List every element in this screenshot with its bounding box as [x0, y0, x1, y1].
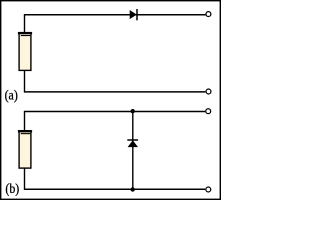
diode D1 series (circuit a), anode left, cathode bar right	[130, 9, 137, 20]
wire: circuit (b) top rail from battery to output terminal	[25, 111, 206, 113]
junction: circuit (b) top rail to shunt branch	[131, 109, 135, 113]
diode D2 shunt (circuit b), cathode bar up, anode down	[127, 140, 138, 147]
wire: circuit (b) bottom rail	[25, 188, 206, 190]
battery B2 (circuit b)	[18, 130, 32, 168]
wire: circuit (a) left vertical from top rail down to battery positive	[24, 14, 26, 33]
svg-text:(a): (a)	[5, 88, 18, 103]
wire: circuit (a) bottom rail	[25, 91, 206, 93]
wire: circuit (b) left vertical from top rail down to battery positive	[24, 111, 26, 131]
terminal: circuit (a) bottom output (open circle)	[206, 89, 211, 94]
junction: circuit (b) bottom rail to shunt branch	[131, 187, 135, 191]
wire: circuit (a) left vertical from battery negative down to bottom rail	[24, 70, 26, 92]
terminal: circuit (b) bottom output (open circle)	[206, 187, 211, 192]
terminal: circuit (a) top output (open circle)	[206, 12, 211, 17]
terminal: circuit (b) top output (open circle)	[206, 109, 211, 114]
wire: circuit (b) left vertical from battery negative down to bottom rail	[24, 168, 26, 190]
battery B1 (circuit a)	[18, 32, 32, 70]
wire: circuit (b) shunt branch vertical	[132, 112, 134, 190]
svg-text:(b): (b)	[5, 182, 19, 197]
wire: circuit (a) top rail from battery to output terminal	[25, 14, 206, 16]
